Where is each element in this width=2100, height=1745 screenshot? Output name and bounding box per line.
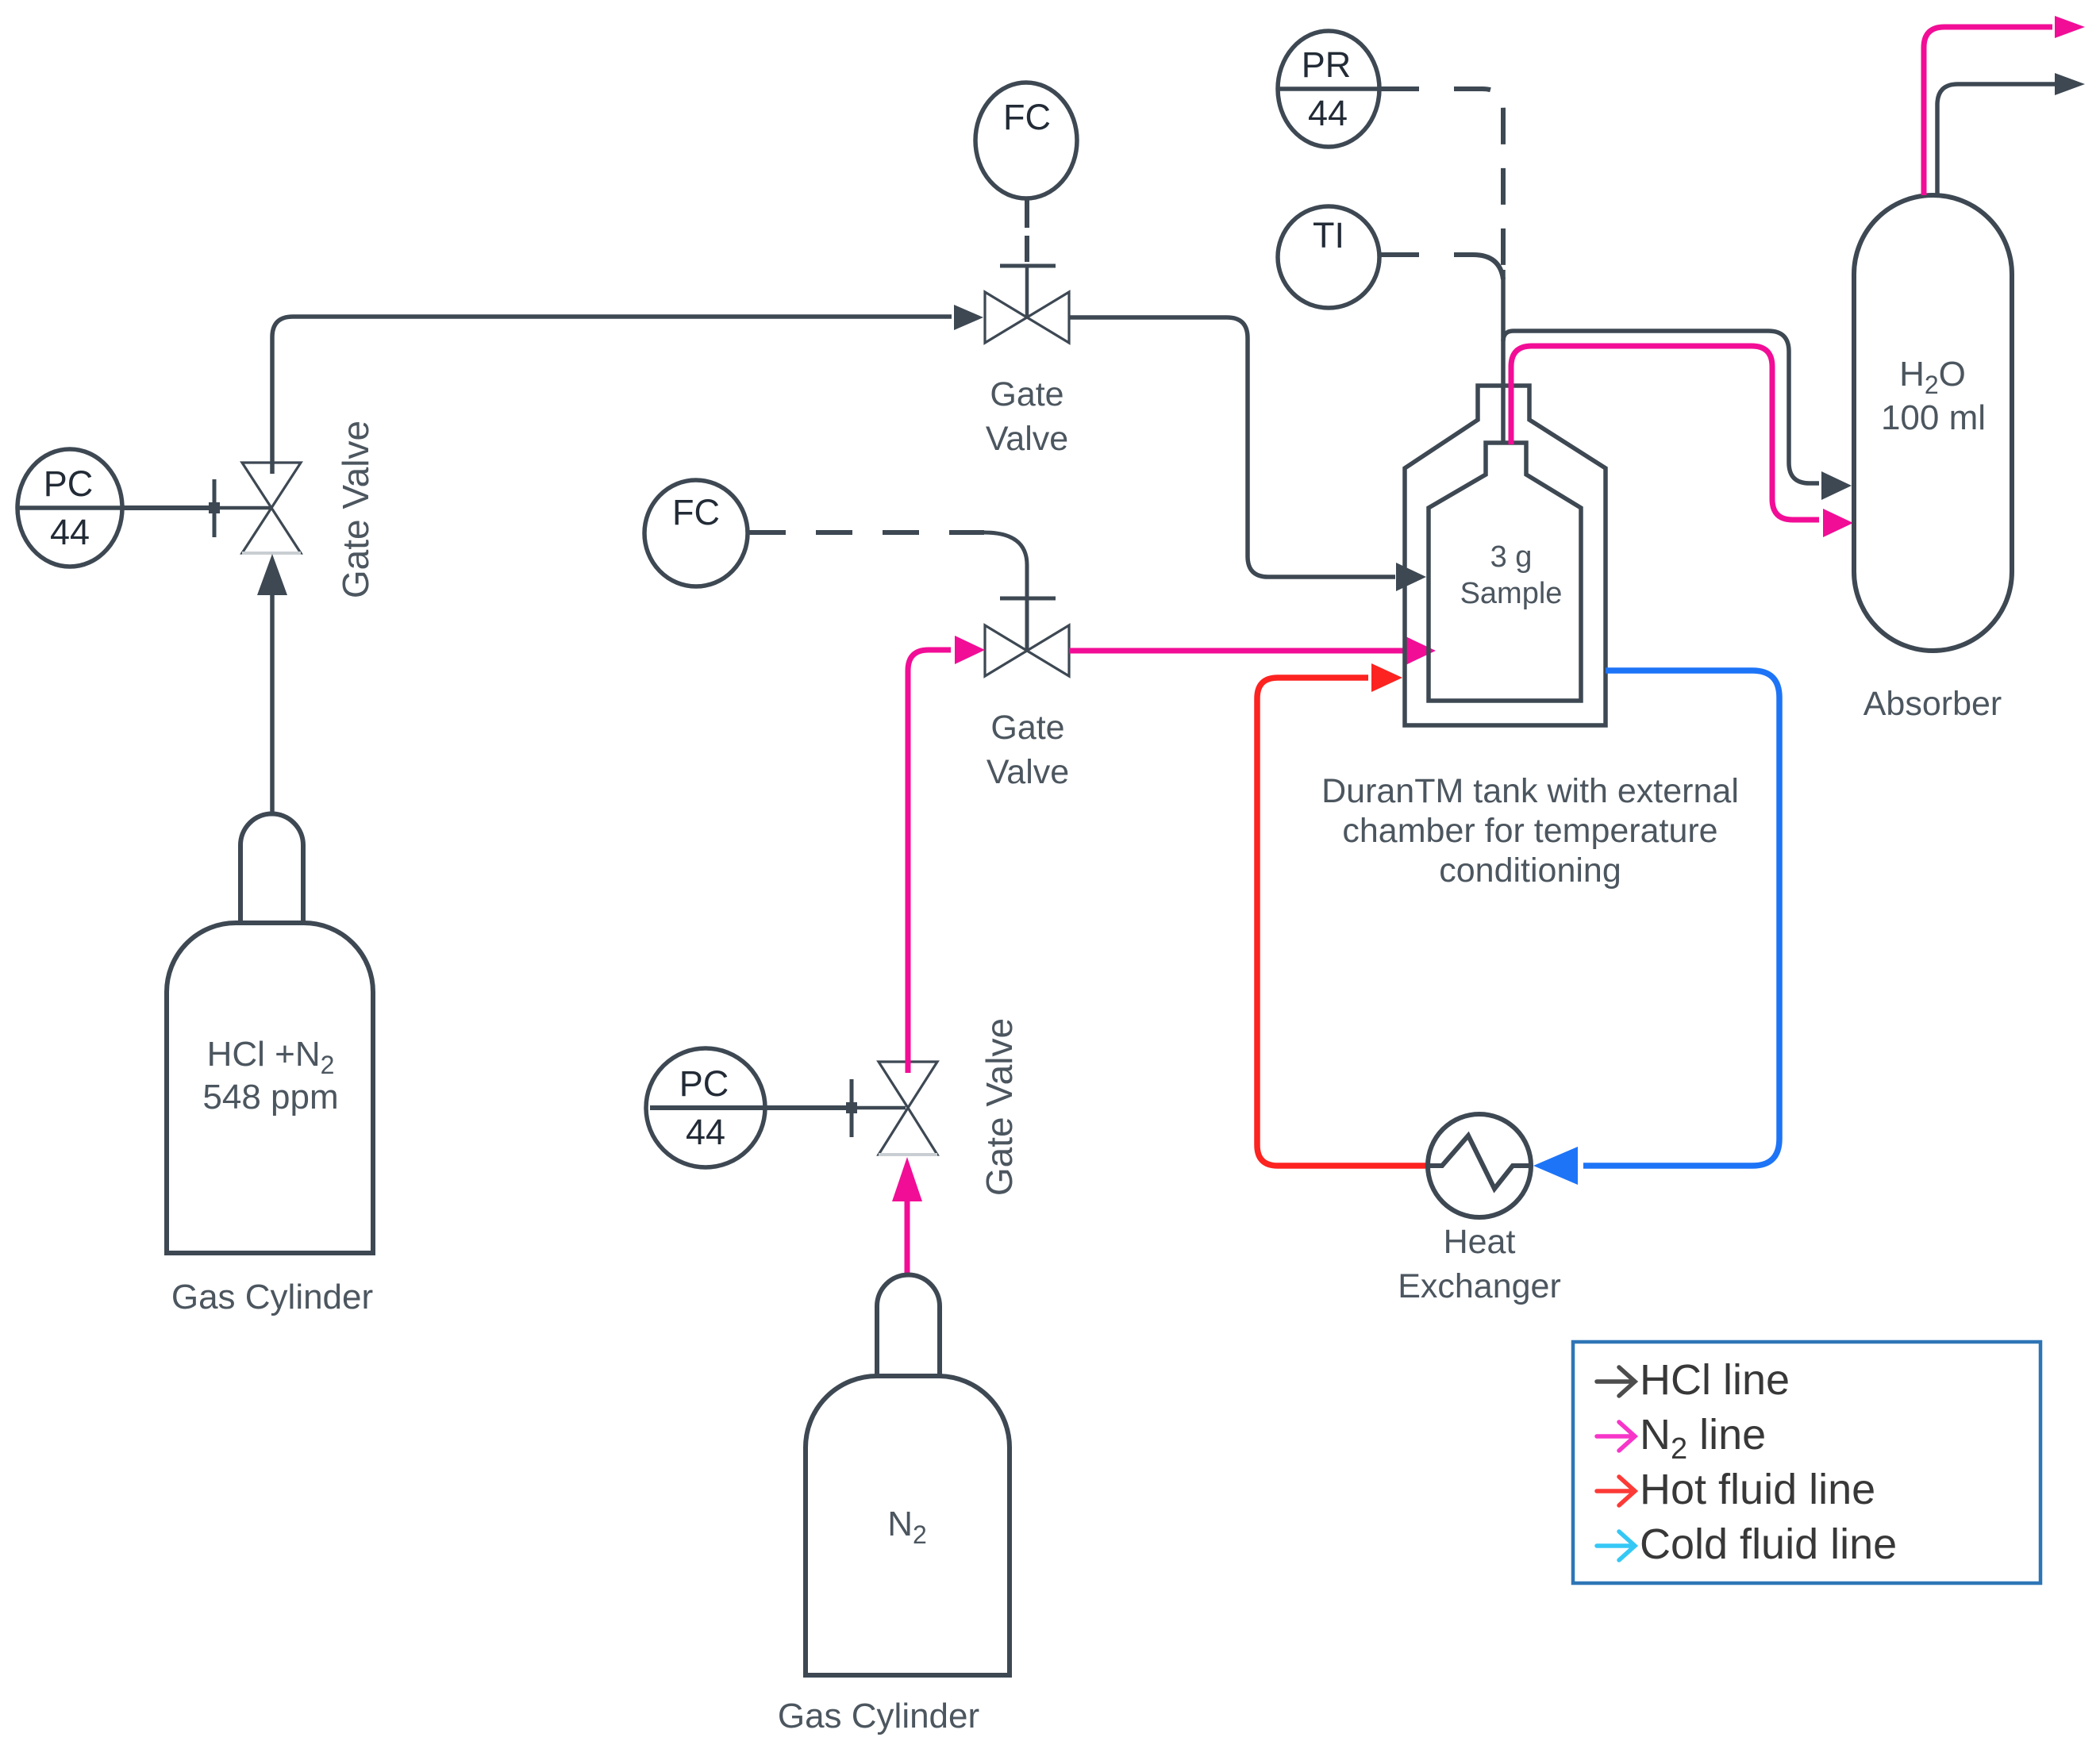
legend HCl line entry: [1597, 1367, 1635, 1396]
arrowhead HCl into valve V2: [954, 305, 983, 330]
arrowhead N2 into tank: [1406, 636, 1436, 665]
HCl gas cylinder: [167, 814, 373, 1254]
instrument TI circle: [1278, 206, 1379, 308]
arrowhead cold fluid into heat exchanger: [1533, 1147, 1578, 1185]
N2 magenta from valve V4 up, right to valve V3, arrow: [908, 650, 951, 1073]
svg-text:Gate: Gate: [990, 709, 1064, 747]
instrument FC-1 circle: [975, 83, 1077, 198]
Duran tank outer jacket: [1405, 386, 1606, 725]
dashed wire TI to tank top: [1379, 255, 1503, 279]
wire PC-44 #2 to valve V4 with tee: [650, 1079, 906, 1137]
gate valve V3 (N2 horizontal): [985, 625, 1069, 676]
red hot fluid line heat exchanger to tank with arrow: [1257, 678, 1427, 1166]
instrument PR-44 circle: [1278, 31, 1379, 147]
dashed wire FC-2 to valve V3: [749, 532, 1056, 651]
svg-text:3 g: 3 g: [1490, 540, 1533, 574]
svg-text:44: 44: [50, 512, 90, 552]
legend box: [1573, 1342, 2040, 1583]
label Gate Valve (V2): [986, 375, 1068, 458]
wire HCl cylinder up to valve V1 with arrow: [257, 554, 287, 813]
svg-text:100 ml: 100 ml: [1881, 398, 1986, 437]
svg-text:Hot fluid line: Hot fluid line: [1640, 1466, 1875, 1513]
arrowhead HCl into tank: [1396, 563, 1426, 591]
valve V4 bottom highlight edge: [879, 1153, 937, 1156]
wire PC-44 to valve V1 with tee junction: [122, 479, 270, 537]
svg-text:chamber for temperature: chamber for temperature: [1342, 812, 1717, 850]
svg-text:TI: TI: [1313, 215, 1344, 256]
dashed stem FC-1 to valve V2: [1000, 200, 1056, 317]
svg-text:Cold fluid line: Cold fluid line: [1640, 1520, 1897, 1568]
arrowhead HCl into absorber: [1821, 471, 1852, 500]
arrowhead N2 vent out: [2055, 16, 2085, 38]
svg-text:548 ppm: 548 ppm: [202, 1078, 338, 1117]
blue cold fluid line tank to heat exchanger with arrow: [1583, 671, 1779, 1166]
svg-text:PC: PC: [679, 1063, 729, 1104]
Duran tank inner vessel: [1429, 443, 1581, 701]
dashed wire PR-44 to tank top: [1379, 89, 1503, 270]
svg-text:Sample: Sample: [1460, 577, 1563, 610]
svg-text:HCl +N2: HCl +N2: [207, 1035, 335, 1079]
svg-text:PC: PC: [44, 463, 94, 504]
legend N2 line entry: [1597, 1422, 1635, 1451]
svg-text:Valve: Valve: [986, 420, 1068, 458]
valve V1 bottom highlight edge: [242, 552, 301, 555]
magenta N2 out of tank to absorber with arrow: [1511, 346, 1819, 520]
label HCl +N2 548 ppm: [202, 1035, 338, 1117]
wire valve V2 right then down to tank inlet with arrow: [1069, 317, 1395, 577]
svg-text:Heat: Heat: [1444, 1223, 1516, 1261]
instrument FC-2 circle: [644, 480, 748, 586]
instrument PC-44 left: [17, 449, 122, 567]
arrowhead N2 into absorber: [1823, 509, 1853, 537]
svg-text:44: 44: [1308, 93, 1348, 133]
wire valve V1 up and right to valve V2 (HCl line) with arrow: [272, 317, 952, 474]
svg-text:Gate: Gate: [990, 375, 1063, 413]
legend Cold fluid line entry: [1597, 1532, 1635, 1560]
heat exchanger: [1427, 1114, 1531, 1217]
svg-text:44: 44: [686, 1112, 725, 1152]
svg-text:Gate Valve: Gate Valve: [335, 421, 376, 598]
dark outlet from absorber top with arrow: [1937, 84, 2055, 195]
svg-text:PR: PR: [1302, 44, 1352, 85]
svg-text:FC: FC: [672, 492, 720, 532]
svg-text:HCl line: HCl line: [1640, 1356, 1790, 1404]
svg-text:Absorber: Absorber: [1863, 685, 2002, 723]
svg-text:Exchanger: Exchanger: [1398, 1267, 1561, 1305]
svg-text:FC: FC: [1003, 97, 1051, 137]
svg-text:conditioning: conditioning: [1439, 851, 1621, 890]
svg-text:Gate Valve: Gate Valve: [979, 1018, 1020, 1196]
legend Hot fluid line entry: [1597, 1477, 1635, 1505]
absorber vessel: [1854, 195, 2012, 651]
arrowhead N2 into valve V3: [955, 636, 985, 664]
arrowhead hot fluid into tank jacket: [1371, 663, 1402, 692]
wire tank outlet up (HCl out) to absorber with arrow: [1503, 270, 1819, 483]
instrument PC-44 #2: [646, 1048, 765, 1167]
label Gate Valve (V3): [987, 709, 1069, 791]
svg-text:Gas Cylinder: Gas Cylinder: [778, 1697, 979, 1735]
magenta outlet from absorber top with arrow: [1924, 27, 2052, 195]
gate valve V2 (top, HCl): [985, 292, 1069, 343]
caption DuranTM tank: [1321, 772, 1739, 890]
svg-text:DuranTM tank with external: DuranTM tank with external: [1321, 772, 1739, 810]
gate valve V1 (HCl cylinder line): [242, 463, 301, 553]
svg-text:Valve: Valve: [987, 753, 1069, 791]
svg-text:N2 line: N2 line: [1640, 1411, 1766, 1466]
gate valve V4 (N2 cylinder line): [879, 1062, 937, 1155]
N2 line from cylinder to valve V4 with arrow (magenta): [892, 1157, 922, 1273]
label 3 g Sample: [1460, 540, 1563, 610]
N2 gas cylinder: [806, 1275, 1010, 1676]
arrowhead HCl vent out: [2055, 73, 2085, 95]
N2 magenta from valve V3 to tank inner vessel with arrow: [1069, 648, 1403, 654]
svg-text:Gas Cylinder: Gas Cylinder: [171, 1278, 373, 1316]
